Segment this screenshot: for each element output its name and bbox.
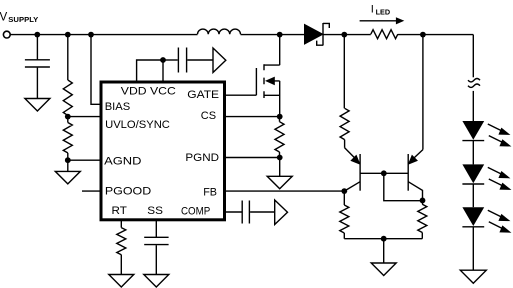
wire COMP pin	[224, 211, 242, 213]
node base junction	[381, 170, 387, 176]
resistor mirror bottom right	[418, 200, 427, 238]
ground (COMP, sideways)	[275, 200, 288, 225]
capacitor COMP	[242, 201, 249, 224]
wire LED string top	[472, 35, 474, 78]
node PGND junction	[277, 155, 283, 161]
LED D2	[462, 164, 511, 190]
junction dots on top rail	[34, 32, 40, 38]
diode D (Schottky)	[305, 23, 330, 46]
wire PGOOD stub	[82, 190, 101, 192]
node FB/collector junction	[341, 188, 347, 194]
wire diode node down to mirror left resistor	[343, 35, 345, 109]
ground (PGND)	[267, 158, 292, 189]
ground (AGND divider)	[55, 160, 80, 184]
wire LED3 to ground	[472, 227, 474, 270]
wire SS pin down	[155, 219, 157, 237]
svg-text:LED: LED	[376, 8, 391, 17]
wire PGND pin to sense resistor bottom	[224, 157, 280, 159]
svg-text:PGND: PGND	[185, 152, 219, 164]
svg-text:V: V	[0, 11, 8, 24]
wire sense node down to Q3 emitter	[422, 35, 424, 150]
resistor mirror left emitter	[340, 108, 349, 139]
label ILED with arrow	[360, 3, 405, 24]
LED D3	[462, 207, 511, 233]
svg-text:PGOOD: PGOOD	[105, 185, 151, 197]
resistor RT	[117, 228, 126, 255]
ground (mirror)	[371, 239, 396, 276]
svg-text:CS: CS	[201, 110, 216, 122]
resistor current-set (series with LED)	[371, 30, 398, 39]
node CS/source junction	[277, 114, 283, 120]
svg-text:SS: SS	[147, 205, 163, 217]
node AGND junction	[65, 157, 101, 163]
svg-text:FB: FB	[203, 186, 217, 198]
resistor UVLO divider top	[63, 35, 72, 116]
wire LED2 to LED3	[472, 184, 474, 207]
wire SS cap to ground	[155, 245, 157, 274]
transistor Q1 N-MOSFET	[256, 35, 279, 117]
svg-text:RT: RT	[112, 205, 127, 217]
svg-text:SUPPLY: SUPPLY	[8, 15, 38, 24]
LED D1	[462, 121, 511, 147]
svg-text:COMP: COMP	[181, 205, 210, 217]
node VSUPPLY input terminal	[0, 11, 38, 38]
wire VCC pin up	[162, 60, 164, 82]
capacitor input bypass	[25, 35, 50, 99]
wire mirror base rail	[360, 172, 408, 174]
wire inductor to diode anode	[241, 34, 305, 36]
ground (SS)	[144, 275, 169, 288]
capacitor VCC bypass	[163, 48, 213, 73]
svg-text:BIAS: BIAS	[105, 101, 131, 113]
wire base to right collector	[384, 173, 423, 200]
transistor Q2 PNP (left of mirror)	[344, 148, 360, 191]
resistor current sense	[275, 117, 284, 158]
wire COMP cap to ground	[250, 211, 275, 213]
svg-text:AGND: AGND	[104, 156, 141, 168]
node string continuation squiggle	[468, 79, 480, 88]
resistor UVLO divider bottom	[63, 117, 72, 160]
wire GATE to MOSFET gate	[224, 94, 257, 96]
wire mirror bottom rail	[344, 238, 422, 240]
resistor mirror bottom left	[340, 191, 349, 239]
ground (LED string)	[460, 270, 486, 283]
wire RT pin down	[120, 219, 122, 228]
ground (VCC cap, sideways)	[213, 48, 226, 73]
op-amp U1 LED driver controller box	[101, 82, 225, 220]
node bottom rail junction	[381, 236, 387, 242]
wire sense resistor to LED string top	[398, 34, 474, 36]
inductor L	[198, 29, 241, 34]
node right collector junction	[420, 198, 426, 204]
svg-text:I: I	[371, 3, 374, 15]
wire LED1 to LED2	[472, 141, 474, 165]
node VCC junction	[160, 57, 166, 63]
capacitor SS	[144, 237, 168, 244]
wire VDD pin up	[137, 60, 163, 82]
node divider junction to UVLO/SYNC	[65, 114, 101, 120]
ground (RT)	[109, 275, 134, 288]
transistor Q3 PNP (right of mirror)	[408, 150, 423, 201]
wire FB pin to current mirror	[224, 190, 344, 192]
wire diode cathode to sense resistor	[323, 34, 371, 36]
svg-text:GATE: GATE	[187, 89, 219, 101]
wire left resistor to Q2 emitter	[344, 140, 346, 148]
wire BIAS to supply rail	[91, 35, 101, 105]
svg-text:UVLO/SYNC: UVLO/SYNC	[105, 119, 170, 131]
wire RT resistor to ground	[120, 255, 122, 275]
wire squiggle to LED1	[472, 91, 474, 121]
wire top supply rail	[10, 34, 197, 36]
ground (input cap)	[25, 99, 50, 112]
wire CS pin to source node	[224, 116, 280, 118]
svg-text:VDD VCC: VDD VCC	[121, 85, 176, 97]
